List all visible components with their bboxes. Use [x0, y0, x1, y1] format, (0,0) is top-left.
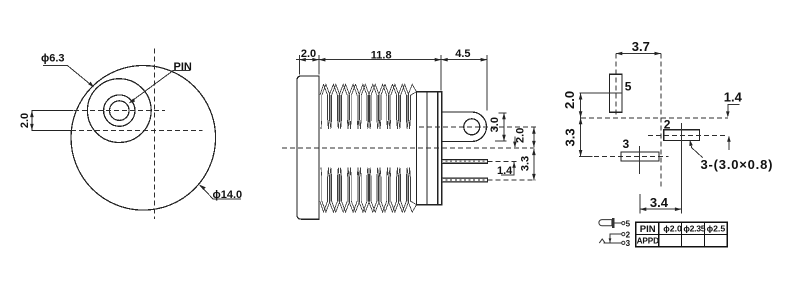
main centerline [282, 147, 534, 149]
dim 3.4 [639, 194, 641, 214]
dim 1.4 (axis to pin1) upper out-arrow [514, 137, 516, 147]
dim 3.3 right (axis to pin2) [533, 149, 535, 181]
svg-text:4.5: 4.5 [455, 48, 470, 60]
svg-text:5: 5 [626, 219, 631, 228]
pin 2 (bottom terminal) [442, 178, 488, 182]
svg-text:ϕ6.3: ϕ6.3 [41, 53, 65, 65]
pad3 centerline dashed [594, 156, 669, 158]
dim line [296, 59, 487, 61]
pad 3 [621, 152, 659, 161]
pad2 center tick vertical [680, 123, 682, 145]
horizontal centerline main [581, 117, 728, 119]
solder tab with hole [442, 112, 487, 142]
ext line flange left [298, 55, 300, 75]
pin 2 centerline ext [488, 179, 536, 181]
side tab [32, 111, 74, 131]
dim 2.0 arrows left tab [30, 111, 34, 118]
ext line flange right [318, 55, 320, 75]
pad5 center tick [580, 92, 623, 94]
neck line 2 (face plate) [437, 92, 439, 205]
svg-text:3.3: 3.3 [520, 156, 532, 171]
arrows top chain [299, 58, 306, 62]
svg-text:2: 2 [626, 230, 631, 239]
svg-text:ϕ14.0: ϕ14.0 [213, 189, 243, 201]
dim 1.4 lower bracket [501, 162, 514, 175]
boss outer circle phi6.3 [87, 79, 151, 143]
dim 3.7 [616, 53, 661, 55]
pad 5 [610, 74, 623, 112]
svg-text:2.0: 2.0 [562, 91, 577, 109]
dim 3.0 tab [499, 112, 507, 114]
thread top zigzag a [320, 84, 417, 129]
pin 1 centerline ext [488, 160, 517, 162]
big circle body phi14 [71, 66, 216, 211]
centerline horizontal boss [74, 110, 165, 112]
hole centerline dashed [419, 126, 536, 128]
thread bottom zigzag a [320, 168, 417, 213]
svg-text:1.4: 1.4 [497, 165, 513, 177]
svg-text:ϕ2.0: ϕ2.0 [663, 224, 682, 234]
neck line 1 [426, 92, 428, 205]
svg-text:3: 3 [623, 137, 630, 151]
leader to pad2 [690, 141, 702, 157]
leader PIN [130, 71, 191, 103]
svg-text:3.3: 3.3 [563, 128, 578, 146]
svg-text:3.4: 3.4 [650, 195, 669, 210]
icon pins 2 and 3 [599, 230, 630, 248]
svg-text:2.0: 2.0 [301, 48, 316, 60]
svg-text:2.0: 2.0 [514, 128, 526, 143]
center pin circle [110, 101, 130, 121]
ext line thread end [440, 55, 442, 91]
pin 1 (top terminal) [442, 159, 488, 163]
icon pin5 barrel [599, 218, 631, 228]
svg-text:3.0: 3.0 [489, 117, 501, 132]
pad3 center tick vertical [639, 146, 641, 174]
svg-text:3.7: 3.7 [632, 39, 650, 54]
svg-text:2: 2 [664, 118, 671, 132]
boss middle ring [104, 95, 135, 126]
tick pad3 row [579, 156, 592, 158]
leader phi6.3 [43, 65, 93, 86]
svg-text:11.8: 11.8 [371, 50, 392, 62]
ext line tab end [486, 55, 488, 111]
svg-text:ϕ2.35: ϕ2.35 [683, 224, 705, 234]
svg-text:PIN: PIN [640, 224, 656, 235]
tab hole [464, 119, 480, 135]
svg-text:APPD: APPD [637, 236, 660, 245]
flange [297, 76, 319, 219]
left dim line 2.0 / 3.3 [580, 93, 582, 157]
neck outline [417, 92, 442, 205]
centerline vertical [153, 49, 155, 219]
vertical centerline pad5 [615, 54, 617, 119]
svg-text:2.0: 2.0 [19, 113, 31, 128]
pad2 centerline dashed [648, 135, 728, 137]
centerline horizontal lower [71, 129, 202, 131]
thread bottom zigzag b [321, 168, 417, 213]
pad 2 [664, 130, 700, 141]
svg-text:1.4: 1.4 [724, 90, 743, 105]
svg-text:3: 3 [626, 239, 631, 248]
thread top zigzag b [321, 84, 417, 129]
leader phi14.0 [200, 185, 241, 199]
vertical centerline main [660, 54, 662, 189]
dim 2.0 right (hole center to axis) [533, 127, 535, 147]
svg-text:3-(3.0×0.8): 3-(3.0×0.8) [701, 157, 774, 172]
svg-text:ϕ2.5: ϕ2.5 [707, 224, 726, 234]
svg-text:5: 5 [625, 80, 632, 94]
